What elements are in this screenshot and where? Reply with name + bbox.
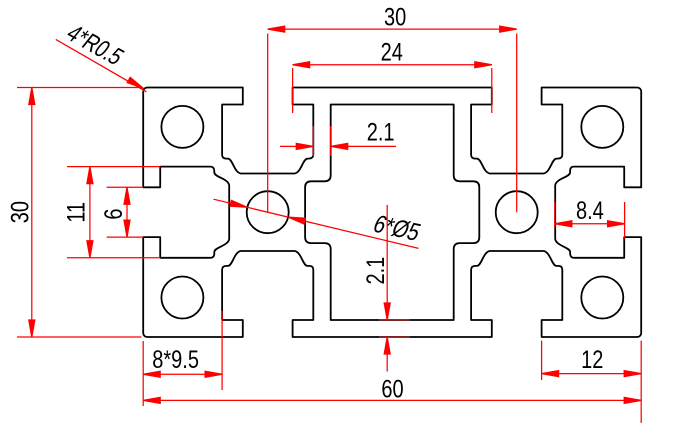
dimension line 24 [293,64,492,66]
extension line 30 bottom [17,336,142,338]
dimension line 12 [542,373,642,375]
extension line 8.4 right [624,202,626,239]
dimension line 8*9.5 [143,373,222,375]
dimension line 2.1 top [280,145,313,147]
dimension line 2.1 bottom [386,205,388,320]
extension line 2.1 left wall [312,126,314,156]
svg-text:2.1: 2.1 [362,257,390,285]
svg-text:2.1: 2.1 [367,119,395,147]
extension line 2.1 bottom [379,336,410,338]
dimension line 11 [89,167,91,258]
extension line 11 bottom [67,257,161,259]
svg-text:8.4: 8.4 [576,197,604,225]
svg-text:24: 24 [381,39,403,67]
dimension line 6 [126,187,128,237]
svg-text:12: 12 [581,346,603,374]
hole center-left (6*Ø5) [247,191,289,233]
extension line 60 right [640,341,642,423]
extension line 2.1 top [379,319,410,321]
hole bottom-left (6*Ø5) [161,277,203,319]
svg-text:30: 30 [384,4,406,32]
extension line 8.4 left [554,202,556,227]
central cavity [305,105,479,321]
hole center-right (6*Ø5) [496,191,538,233]
hole bottom-right (6*Ø5) [581,277,623,319]
hole top-right (6*Ø5) [581,106,623,148]
extension line left slot axis [267,34,269,213]
extension line 12 left [541,341,543,380]
svg-text:30: 30 [6,201,34,223]
dimension line 30 top [268,28,517,30]
extension line 24 right [491,68,493,113]
extension line 30 top [17,87,142,89]
extension line 60 left [142,341,144,406]
dimension line 8.4 [555,223,625,225]
svg-text:8*9.5: 8*9.5 [152,346,199,374]
extension line 2.1 right wall [330,126,332,156]
svg-text:11: 11 [62,202,90,223]
profile outer outline [143,88,641,338]
dimension line 30 left [31,88,33,338]
extension line 6 top [107,186,144,188]
extension line 24 left [292,68,294,113]
svg-text:60: 60 [381,375,403,403]
extension line 11 top [67,166,161,168]
svg-text:6: 6 [100,209,128,220]
extension line right slot axis [516,34,518,213]
extension line 9.5 right [221,311,223,390]
extension line 6 bottom [107,236,144,238]
leader 6*Ø5 [214,199,419,248]
dimension line 60 [143,399,641,401]
hole top-left (6*Ø5) [161,106,203,148]
leader 4*R0.5 [56,39,147,91]
